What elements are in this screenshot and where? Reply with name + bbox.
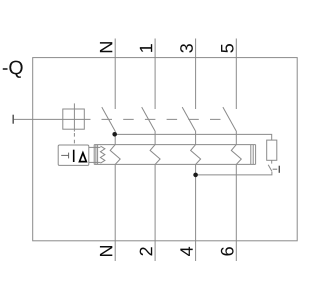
pole 3 conductor with CT primary squiggle xyxy=(191,131,201,261)
summation CT core band bottom xyxy=(94,163,255,165)
test resistor xyxy=(267,140,277,160)
pole 1 conductor with CT primary squiggle xyxy=(150,131,160,261)
terminal 3 lead xyxy=(195,39,197,110)
mechanism square xyxy=(63,109,85,129)
junction node on pole N xyxy=(112,132,117,137)
handle bar xyxy=(12,115,14,124)
CT secondary winding zigzag xyxy=(100,146,105,163)
mechanical coupling dashed line xyxy=(102,118,231,120)
test return wire xyxy=(196,172,272,175)
junction node on pole 3 xyxy=(193,173,198,178)
relay symbol I xyxy=(73,150,75,162)
winding stub top xyxy=(89,146,100,148)
relay symbol delta xyxy=(80,153,87,162)
terminal label N top xyxy=(100,42,112,52)
label -Q xyxy=(3,61,23,78)
trip relay box xyxy=(58,145,89,165)
resistor bottom stub xyxy=(271,160,273,163)
handle shaft xyxy=(13,118,90,120)
relay symbol tee xyxy=(61,153,68,159)
terminal N top lead xyxy=(114,39,116,110)
switch contact blade pole 1 xyxy=(142,107,155,131)
terminal label 3 xyxy=(180,44,193,53)
mechanism link dashed vertical xyxy=(73,133,75,145)
terminal label 2 xyxy=(140,247,153,255)
switch contact blade pole 5 xyxy=(223,107,236,131)
terminal label 1 xyxy=(140,44,152,52)
switch contact blade pole 3 xyxy=(182,107,195,131)
neutral bus wire to test circuit xyxy=(115,134,272,140)
test contact blade xyxy=(268,165,272,172)
switch contact blade pole N xyxy=(102,107,115,131)
test button bar xyxy=(278,166,280,173)
terminal label 6 xyxy=(221,247,234,255)
terminal label 4 xyxy=(180,247,192,256)
terminal 1 lead xyxy=(154,39,156,110)
terminal 5 lead xyxy=(235,39,237,110)
test button actuator dash xyxy=(273,168,278,170)
pole N conductor with CT primary squiggle xyxy=(110,131,120,261)
pole 5 conductor with CT primary squiggle xyxy=(231,131,241,261)
winding stub bottom xyxy=(89,161,100,163)
terminal label N bottom xyxy=(100,246,112,256)
CT core end bars right xyxy=(250,145,252,165)
terminal label 5 xyxy=(221,44,234,53)
summation CT core band top xyxy=(94,144,255,146)
enclosure outline xyxy=(33,58,298,241)
mechanism cross vertical xyxy=(73,103,75,131)
CT core end bars left xyxy=(93,145,95,165)
